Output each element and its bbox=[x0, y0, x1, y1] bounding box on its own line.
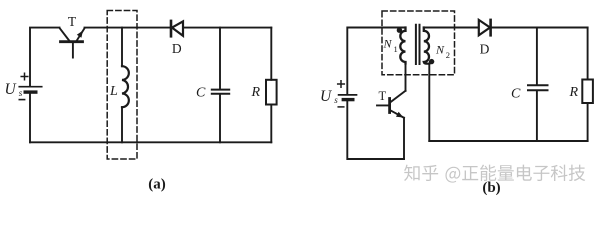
diode D (circuit b, pointing right) bbox=[479, 20, 491, 35]
svg-text:T: T bbox=[379, 89, 387, 103]
transformer core (circuit b) bbox=[416, 25, 420, 64]
svg-text:1: 1 bbox=[394, 44, 398, 54]
battery source Us (circuit a) bbox=[19, 87, 41, 92]
label + (circuit a) bbox=[21, 73, 28, 80]
svg-text:C: C bbox=[511, 86, 521, 101]
svg-text:s: s bbox=[334, 95, 338, 105]
wire: circuit a top rail, source to transistor bbox=[30, 28, 60, 86]
inductor L (circuit a) bbox=[122, 28, 129, 143]
label + (circuit b) bbox=[338, 81, 345, 88]
label N2 bbox=[435, 43, 450, 61]
svg-text:N: N bbox=[383, 37, 393, 51]
wire: transistor to diode (circuit a) bbox=[85, 27, 171, 29]
svg-text:T: T bbox=[68, 14, 77, 29]
wire: bottom rail (circuit a) bbox=[30, 141, 271, 143]
wire: circuit b top rail, source to transformer N1 bbox=[347, 28, 405, 95]
svg-text:D: D bbox=[172, 41, 182, 56]
svg-text:2: 2 bbox=[446, 50, 450, 60]
polarity dot N1 bbox=[397, 28, 402, 33]
transformer winding N1 (circuit b) bbox=[400, 28, 405, 64]
wire: diode to output (circuit b) bbox=[491, 27, 587, 29]
wire: battery minus to bottom rail (circuit a) bbox=[29, 92, 31, 142]
wire: N2 top to diode (circuit b) bbox=[424, 27, 479, 29]
svg-text:C: C bbox=[196, 85, 206, 100]
battery source Us (circuit b) bbox=[339, 95, 357, 100]
capacitor C (circuit a) bbox=[212, 28, 229, 143]
dashed box around L (circuit a) bbox=[107, 11, 137, 160]
label N1 bbox=[383, 37, 398, 55]
transistor Q T (circuit b) bbox=[377, 91, 406, 118]
svg-text:L: L bbox=[109, 84, 118, 99]
resistor R (circuit a) bbox=[266, 28, 277, 143]
diode D (circuit a, cathode left) bbox=[171, 21, 183, 36]
resistor R (circuit b) bbox=[582, 28, 593, 142]
svg-text:R: R bbox=[251, 85, 261, 100]
label - (circuit a) bbox=[19, 99, 24, 101]
svg-text:D: D bbox=[480, 42, 490, 57]
dashed box around transformer (circuit b) bbox=[382, 11, 455, 75]
svg-text:U: U bbox=[320, 88, 333, 105]
svg-text:(b): (b) bbox=[482, 180, 500, 196]
transformer winding N2 (circuit b) bbox=[424, 28, 430, 64]
watermark Zhihu @zhengnengliang dianzi keji bbox=[404, 165, 585, 183]
svg-text:U: U bbox=[5, 81, 18, 98]
label - (circuit b) bbox=[338, 106, 344, 108]
svg-text:(a): (a) bbox=[148, 177, 166, 193]
label Us (circuit a) bbox=[5, 81, 23, 98]
transistor Q T (circuit a) bbox=[60, 28, 85, 58]
wire: collector to N1 (circuit b) bbox=[405, 63, 407, 91]
wire: secondary bottom rail (circuit b) bbox=[429, 140, 587, 142]
svg-text:N: N bbox=[435, 43, 445, 57]
wire: emitter to bottom rail (circuit b) bbox=[403, 118, 405, 159]
wire: battery minus down and primary bottom rail (circuit b) bbox=[347, 100, 404, 159]
capacitor C (circuit b) bbox=[528, 28, 548, 142]
label Us (circuit b) bbox=[320, 88, 338, 105]
wire: diode to output node (circuit a) bbox=[184, 27, 271, 29]
polarity dot N2 bbox=[429, 59, 434, 64]
svg-text:s: s bbox=[19, 88, 23, 98]
wire: N2 bottom down to secondary rail (circuit b) bbox=[428, 64, 430, 141]
svg-text:R: R bbox=[569, 85, 579, 100]
